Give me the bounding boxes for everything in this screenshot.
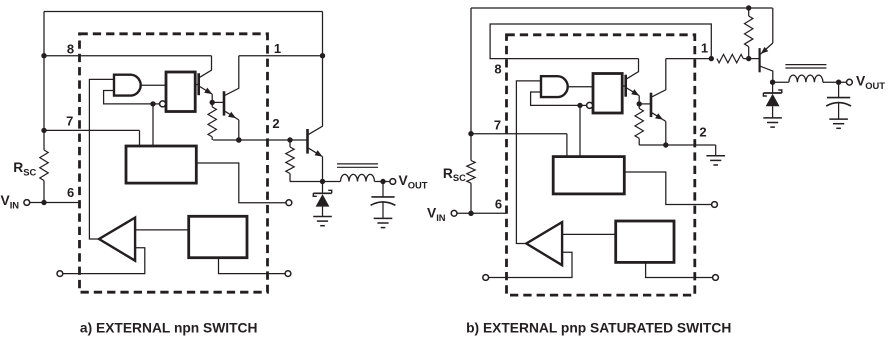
inductor L (a) xyxy=(323,181,341,183)
junction b: pin1 node (pin8 tie) xyxy=(709,56,714,61)
resistor RSC (a) xyxy=(40,150,48,181)
svg-text:1: 1 xyxy=(701,41,708,56)
external npn transistor (a) emitter xyxy=(309,148,323,156)
wire b: AND gate output to latch xyxy=(568,86,593,88)
transistor Q2 a base wire xyxy=(212,101,224,103)
svg-text:VOUT: VOUT xyxy=(399,173,428,190)
svg-text:RSC: RSC xyxy=(443,166,466,183)
junction b: VOUT node xyxy=(836,80,841,85)
external pnp transistor (b) emitter xyxy=(761,43,773,54)
external pnp transistor (b) collector xyxy=(761,66,773,82)
svg-text:RSC: RSC xyxy=(13,160,36,177)
latch inverting input bubble a xyxy=(160,101,166,107)
terminal a: oscillator timing pin xyxy=(286,200,292,206)
transistor Q1 b base wire xyxy=(622,85,626,87)
wire b: comparator noninverting input from reference xyxy=(562,233,616,235)
junction b: Q2 emitter on pin 2 line xyxy=(663,142,668,147)
wire b: comparator inverting input to bottom pin xyxy=(489,252,572,277)
svg-text:7: 7 xyxy=(66,114,73,129)
dashed IC boundary box b xyxy=(507,35,695,295)
wire b: left rail upper segment xyxy=(470,8,472,161)
junction b: left rail at pin 6 xyxy=(468,211,473,216)
transistor Q2 b emitter xyxy=(652,113,666,122)
ground b: pin 2 ground xyxy=(706,155,725,157)
terminal VIN (b) xyxy=(451,210,457,216)
junction a: base resistor tap xyxy=(287,137,292,142)
wire a: pin 2 line to external npn base xyxy=(213,139,307,141)
wire a: left rail upper segment xyxy=(43,12,45,151)
wire b: pin 2 line to ground xyxy=(639,144,716,146)
wire a: reference block output to bottom pin xyxy=(219,258,285,274)
transistor Q2 a emitter xyxy=(225,111,239,120)
wire a: node down to oscillator xyxy=(152,104,154,146)
catch diode D1 (a) schottky xyxy=(322,182,324,194)
comparator b xyxy=(526,222,562,265)
svg-text:b) EXTERNAL pnp SATURATED SWIT: b) EXTERNAL pnp SATURATED SWITCH xyxy=(466,321,731,336)
transistor Q1 b emitter xyxy=(627,88,640,96)
terminal VOUT (b) xyxy=(847,79,853,85)
transistor Q2 b base wire xyxy=(639,103,651,105)
transistor Q1 a emitter xyxy=(200,87,213,95)
AND gate b xyxy=(541,76,568,97)
reference regulator block b xyxy=(616,221,674,262)
junction b: feedback node xyxy=(577,103,582,108)
wire b: pin 8 route over the box xyxy=(490,24,711,59)
transistor Q1 a collector xyxy=(200,56,212,78)
node a: switch output node xyxy=(320,179,325,184)
wire a: left rail lower segment xyxy=(43,181,45,203)
wire a: AND gate lower input feedback loop xyxy=(104,91,153,104)
latch/driver block a xyxy=(166,72,195,112)
resistor b: Q1 emitter to pin 2 xyxy=(638,104,640,109)
wire b: pin 7 drop to oscillator xyxy=(566,134,568,157)
resistor a: Q1 emitter to pin 2 xyxy=(211,102,213,107)
wire a: Q2 emitter down to pin 2 line xyxy=(238,120,240,140)
svg-text:8: 8 xyxy=(67,42,74,57)
transistor Q1 a bar xyxy=(197,73,200,95)
junction a: Q2 emitter on pin 2 line xyxy=(236,137,241,142)
wire a: oscillator output to pin terminal xyxy=(196,163,285,203)
svg-text:a) EXTERNAL npn SWITCH: a) EXTERNAL npn SWITCH xyxy=(80,321,258,336)
latch/driver block b xyxy=(593,74,622,114)
wire b: oscillator output to pin terminal xyxy=(624,172,711,205)
wire a: node to latch inverting input bubble xyxy=(153,103,160,105)
wire b: Q2 emitter down to pin 2 line xyxy=(665,121,667,145)
terminal a: comparator inverting input pin xyxy=(57,271,63,277)
transistor Q1 a base wire xyxy=(195,84,199,86)
wire a: comparator output up to AND gate input xyxy=(89,79,114,239)
wire b: top rail corner down to pnp emitter xyxy=(772,8,774,43)
svg-text:1: 1 xyxy=(274,41,281,56)
wire b: pin 7 line xyxy=(471,133,567,135)
junction a: feedback node xyxy=(150,101,155,106)
svg-text:7: 7 xyxy=(494,118,501,133)
wire a: right rail from top to pin1 node xyxy=(322,12,324,56)
AND gate a xyxy=(114,75,141,96)
wire b: AND gate lower input feedback loop xyxy=(531,92,580,105)
wire b: pin 1 line xyxy=(666,58,712,60)
latch inverting input bubble b xyxy=(587,102,593,108)
transistor Q2 a bar xyxy=(223,91,226,115)
wire a: emitter down to output node xyxy=(322,157,324,182)
capacitor Cout (b) xyxy=(838,82,840,97)
terminal b: oscillator timing pin xyxy=(712,202,718,208)
node a: Q1 emitter / Q2 base junction xyxy=(210,100,215,105)
comparator a xyxy=(99,218,135,261)
node b: switch output node xyxy=(770,80,775,85)
wire b: node down to oscillator xyxy=(579,105,581,156)
transistor Q2 b collector xyxy=(652,59,666,97)
catch diode D1 (b) schottky xyxy=(772,82,774,93)
junction a: VOUT node xyxy=(380,179,385,184)
external pnp transistor (b) bar xyxy=(758,48,760,72)
ground a: diode ground xyxy=(313,216,332,218)
external npn transistor (a) collector xyxy=(309,56,323,135)
external npn transistor (a) bar xyxy=(306,129,309,154)
terminal a: reference output pin xyxy=(285,271,291,277)
svg-text:6: 6 xyxy=(67,185,74,200)
dashed IC boundary box a xyxy=(80,34,268,292)
wire a: AND gate output to latch xyxy=(141,84,166,86)
transistor Q1 b collector xyxy=(627,59,639,79)
wire a: pin 8 line xyxy=(44,55,212,57)
wire a: top V-in rail xyxy=(44,11,323,13)
svg-text:8: 8 xyxy=(494,62,501,77)
wire b: node to latch inverting input bubble xyxy=(580,104,587,106)
svg-text:2: 2 xyxy=(699,125,706,140)
capacitor Cout (a) xyxy=(382,182,384,197)
resistor RSC (b) xyxy=(467,161,475,184)
inductor L (b) xyxy=(773,81,789,83)
terminal VIN (a) xyxy=(24,200,30,206)
junction b: left rail at pin 7 xyxy=(468,131,473,136)
junction a: left rail at pin 7 xyxy=(41,128,46,133)
svg-text:2: 2 xyxy=(272,116,279,131)
wire a: comparator noninverting input from reference xyxy=(135,229,189,231)
wire b: comparator output up to AND gate input xyxy=(516,81,541,244)
svg-text:VOUT: VOUT xyxy=(856,74,885,91)
oscillator block a xyxy=(126,146,196,183)
wire a: comparator inverting input to bottom pin xyxy=(63,248,145,274)
svg-text:VIN: VIN xyxy=(1,193,20,210)
terminal b: comparator inverting input pin xyxy=(483,275,489,281)
ground b: diode ground xyxy=(763,117,782,119)
wire a: pin 7 line xyxy=(44,129,140,131)
wire a: resistor to output node xyxy=(290,181,323,183)
svg-text:6: 6 xyxy=(495,197,502,212)
junction b: top rail resistor tap xyxy=(746,5,751,10)
wire b: left rail lower segment xyxy=(470,183,472,213)
wire a: pin 1 line xyxy=(239,55,323,57)
junction a: pin2/Q2 emitter xyxy=(236,137,241,142)
transistor Q2 b bar xyxy=(650,93,653,117)
transistor Q1 b bar xyxy=(624,75,627,97)
node b: Q1 emitter / Q2 base junction xyxy=(637,101,642,106)
terminal b: reference output pin xyxy=(713,275,719,281)
resistor b: base drive resistor xyxy=(717,54,743,62)
junction a: left rail at pin 6 xyxy=(41,200,46,205)
svg-text:VIN: VIN xyxy=(427,206,446,223)
terminal VOUT (a) xyxy=(390,179,396,185)
wire b: top V-in rail xyxy=(471,7,773,9)
wire b: resistor to pnp base xyxy=(743,58,758,60)
junction a: top rail / pin1 / npn collector xyxy=(320,53,325,58)
wire b: pin 6 / VIN line xyxy=(457,212,506,214)
oscillator block b xyxy=(553,157,624,194)
junction b: base-emitter resistor tap xyxy=(746,56,751,61)
junction a: left rail at pin 8 xyxy=(41,53,46,58)
wire a: pin 7 drop to oscillator xyxy=(139,130,141,146)
resistor a: base-emitter resistor xyxy=(289,140,291,147)
wire b: reference block output to bottom pin xyxy=(646,262,713,277)
reference regulator block a xyxy=(189,216,247,257)
transistor Q2 a collector xyxy=(225,56,239,96)
wire a: pin 6 / VIN line xyxy=(30,202,80,204)
resistor b: base-emitter resistor xyxy=(748,8,750,16)
